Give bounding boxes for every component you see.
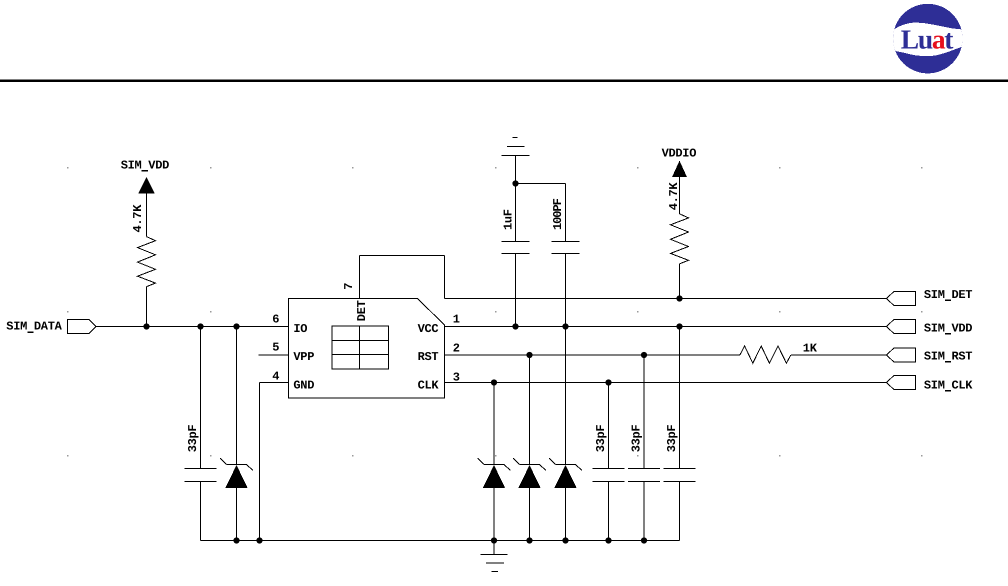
svg-text:VPP: VPP [293, 350, 314, 364]
svg-text:GND: GND [293, 378, 314, 392]
svg-text:VDDIO: VDDIO [662, 146, 697, 160]
svg-text:4.7K: 4.7K [131, 204, 145, 233]
svg-text:1K: 1K [803, 342, 818, 356]
svg-text:1uF: 1uF [501, 209, 515, 230]
svg-text:33pF: 33pF [186, 425, 200, 453]
svg-text:100PF: 100PF [551, 198, 565, 230]
svg-text:33pF: 33pF [629, 425, 643, 453]
svg-text:IO: IO [293, 322, 307, 336]
svg-text:7: 7 [342, 283, 356, 290]
svg-text:33pF: 33pF [665, 425, 679, 453]
svg-text:VCC: VCC [418, 322, 439, 336]
svg-text:RST: RST [418, 350, 439, 364]
svg-text:Luat: Luat [901, 24, 955, 55]
svg-text:4: 4 [272, 370, 279, 384]
svg-text:33pF: 33pF [594, 425, 608, 453]
svg-text:5: 5 [272, 340, 279, 354]
svg-text:DET: DET [355, 300, 369, 321]
svg-text:CLK: CLK [418, 378, 440, 392]
svg-text:2: 2 [453, 341, 460, 355]
svg-text:4.7K: 4.7K [667, 182, 681, 211]
svg-text:SIM DATA: SIM DATA [6, 320, 62, 334]
svg-text:6: 6 [272, 312, 279, 326]
svg-text:1: 1 [453, 312, 460, 326]
svg-text:3: 3 [453, 370, 460, 384]
